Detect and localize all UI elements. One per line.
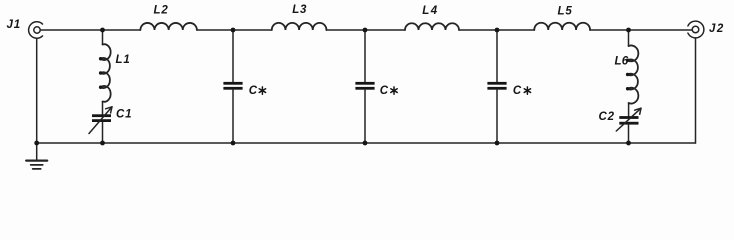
wire top rail L3 to L4	[326, 29, 405, 31]
junction dots top rail	[100, 28, 631, 33]
svg-text:L5: L5	[558, 5, 573, 17]
wire top rail L4 to L5	[459, 29, 534, 31]
svg-text:J1: J1	[7, 19, 21, 31]
capacitor C* (branch 2) plates	[223, 82, 242, 90]
wire branch3 top	[364, 30, 366, 82]
inductor L1	[101, 44, 111, 102]
wire L1 to C1	[102, 102, 104, 115]
asterisk (branch 4)	[524, 87, 530, 94]
inductor L4	[405, 23, 459, 30]
svg-text:L4: L4	[422, 5, 439, 17]
capacitor C* (branch 3) plates	[355, 82, 374, 90]
inductor L2	[140, 23, 196, 30]
wire J1 down	[36, 38, 38, 143]
capacitor C2 arrow	[616, 108, 641, 131]
svg-text:C1: C1	[116, 109, 132, 121]
L6 cusp curls	[626, 59, 629, 91]
junction dots bottom rail	[34, 141, 631, 146]
wire branch5 top	[628, 30, 630, 46]
wire branch4 top	[496, 30, 498, 82]
asterisk (branch 2)	[259, 87, 265, 94]
capacitor C1 plates	[92, 114, 111, 122]
ground	[26, 143, 47, 169]
wire C1 to bottom rail	[102, 122, 104, 143]
inductor L6	[628, 45, 639, 103]
capacitor C1 arrow	[89, 107, 112, 134]
L1 cusp curls	[99, 57, 102, 89]
svg-text:C: C	[513, 85, 522, 97]
svg-text:L3: L3	[292, 4, 307, 16]
wire J2 down	[695, 38, 697, 143]
wire branch3 bottom	[364, 90, 366, 143]
capacitor C2 plates	[619, 116, 638, 125]
svg-text:C2: C2	[599, 111, 615, 123]
wire bottom rail	[37, 142, 696, 144]
inductor L3	[272, 23, 327, 30]
wire L6 to C2	[628, 103, 630, 116]
svg-text:J2: J2	[709, 23, 725, 35]
svg-text:L2: L2	[154, 5, 169, 17]
connector J1	[29, 22, 43, 38]
wire branch1 top	[102, 30, 104, 45]
svg-text:L1: L1	[116, 54, 131, 66]
connector J2	[688, 21, 704, 38]
wire branch2 top	[232, 30, 234, 82]
wire C2 to bottom rail	[628, 125, 630, 143]
wire branch4 bottom	[496, 90, 498, 143]
capacitor C* (branch 4) plates	[487, 82, 506, 90]
wire branch2 bottom	[232, 90, 234, 143]
wire top rail L2 to L3	[197, 29, 272, 31]
wire top rail J1 to L2	[40, 29, 140, 31]
asterisk (branch 3)	[391, 87, 397, 94]
svg-text:L6: L6	[615, 55, 629, 67]
svg-text:C: C	[380, 85, 389, 97]
inductor L5	[534, 23, 590, 30]
svg-text:C: C	[249, 85, 258, 97]
wire top rail L5 to J2	[590, 29, 692, 31]
